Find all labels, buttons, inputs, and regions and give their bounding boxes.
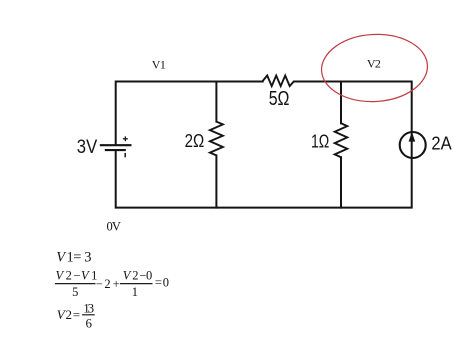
svg-text:5Ω: 5Ω xyxy=(269,88,290,110)
svg-text:13: 13 xyxy=(83,300,94,315)
svg-text:V2−V1: V2−V1 xyxy=(56,268,98,282)
svg-text:V1: V1 xyxy=(152,57,166,71)
svg-text:2Ω: 2Ω xyxy=(185,131,205,151)
svg-text:V2: V2 xyxy=(367,56,381,70)
svg-text:V2−0: V2−0 xyxy=(123,268,153,282)
svg-text:1Ω: 1Ω xyxy=(311,131,329,151)
svg-text:3V: 3V xyxy=(77,137,98,158)
svg-text:V2=: V2= xyxy=(57,307,80,322)
svg-text:1: 1 xyxy=(132,285,138,299)
svg-text:6: 6 xyxy=(85,316,92,331)
svg-text:V1=3: V1=3 xyxy=(56,250,91,266)
svg-text:5: 5 xyxy=(72,285,78,299)
svg-text:−2+: −2+ xyxy=(96,277,120,291)
svg-text:=0: =0 xyxy=(155,276,169,290)
svg-text:0V: 0V xyxy=(107,220,121,234)
svg-text:2A: 2A xyxy=(431,133,452,154)
